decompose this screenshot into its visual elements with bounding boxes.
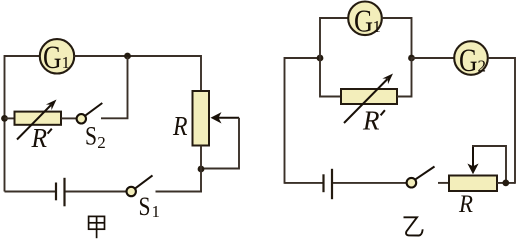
wire wiper loop of R (right)	[472, 146, 506, 183]
wire bottom-left segment	[5, 191, 56, 193]
wire battery to switch S1	[66, 191, 127, 193]
svg-text:G: G	[354, 3, 373, 39]
wire bottom-left to battery	[285, 182, 323, 184]
wire right vertical upper (top wire to R)	[200, 55, 202, 92]
wire left vertical	[4, 55, 6, 192]
wire down to R' branch	[320, 57, 342, 97]
wire outer left	[285, 58, 321, 184]
rheostat R'	[15, 100, 62, 140]
wire to rheostat R'	[5, 117, 16, 119]
galvanometer G1 (right)	[348, 2, 382, 39]
svg-text:R: R	[172, 111, 188, 141]
galvanometer G2	[454, 41, 488, 79]
wire switch S1 to bottom-right corner	[156, 191, 203, 193]
svg-text:G: G	[459, 43, 478, 79]
switch S2	[77, 103, 103, 124]
node junction at top wire	[124, 53, 131, 60]
wire switch to potentiometer R	[438, 182, 449, 184]
wire R' to right junction vertical	[397, 57, 412, 97]
wire right junction to G2	[412, 57, 455, 59]
wire top-right segment	[74, 55, 201, 57]
svg-text:S: S	[85, 121, 97, 150]
wire switch S2 to junction vertical	[101, 57, 128, 118]
svg-text:1: 1	[62, 53, 71, 72]
battery B2	[324, 169, 333, 199]
potentiometer R	[193, 91, 240, 146]
battery B1	[56, 178, 65, 207]
node right junction	[408, 55, 415, 62]
galvanometer G1	[40, 39, 74, 76]
wire battery to switch	[333, 182, 407, 184]
wire top-left segment	[5, 55, 41, 57]
rheostat R' (right)	[341, 74, 397, 124]
switch (right circuit)	[407, 167, 435, 188]
wire G2 to outer right vertical	[488, 58, 515, 184]
svg-text:1: 1	[152, 202, 161, 221]
svg-text:S: S	[139, 192, 151, 221]
svg-text:2: 2	[97, 133, 106, 152]
switch S1	[127, 175, 153, 196]
wire right vertical lower	[200, 146, 202, 192]
wire G1 to right junction	[382, 18, 412, 59]
wire R to outer right vertical	[497, 182, 515, 184]
svg-text:R: R	[458, 191, 473, 218]
svg-text:G: G	[43, 40, 62, 76]
label 甲	[89, 216, 105, 238]
svg-text:1: 1	[373, 17, 382, 36]
node left junction	[317, 55, 324, 62]
svg-text:2: 2	[478, 57, 487, 76]
node junction on left vertical	[1, 115, 8, 122]
wire rheostat to switch S2	[61, 117, 77, 119]
wire wiper loop of R	[201, 118, 239, 169]
potentiometer R (right)	[449, 146, 497, 191]
label 乙	[404, 217, 423, 235]
svg-text:R: R	[31, 123, 48, 153]
wire up to G1 branch	[320, 18, 349, 59]
node junction at R right	[502, 180, 509, 187]
node junction below R	[198, 166, 205, 173]
svg-text:R: R	[362, 106, 380, 136]
